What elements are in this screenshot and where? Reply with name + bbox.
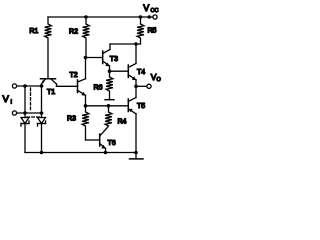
wire T5 emitter down [135,114,137,153]
node input top D1 [24,85,26,87]
R6 open bar [105,99,114,101]
svg-text:O: O [157,77,162,83]
node D2 bottom wire [40,112,42,114]
svg-text:T1: T1 [47,89,55,96]
node input top T1 emitter [40,85,42,87]
svg-text:V: V [143,3,149,13]
svg-text:I: I [11,100,13,106]
label Vo [151,72,162,83]
svg-text:R5: R5 [148,28,157,35]
transistor T5 [128,98,145,114]
svg-text:R3: R3 [67,116,76,123]
svg-text:CC: CC [151,8,159,14]
ground [130,153,144,159]
transistor T1 [41,79,57,96]
transistor T6 [100,129,116,149]
wire D1 column [24,86,26,118]
wire R3 to T6 base [86,139,100,141]
resistor R3 [67,106,89,140]
input terminal top [12,84,16,88]
label Vi [3,94,13,106]
transistor T4 [128,64,145,81]
svg-text:R4: R4 [118,119,127,126]
transistor T3 [103,50,118,67]
wire input bottom [17,112,42,114]
wire top supply rail [48,16,153,18]
wire T6 emitter down [105,148,107,152]
node R2 rail junction [85,16,87,18]
node T6 rail [104,151,106,153]
svg-text:R2: R2 [69,29,78,36]
wire T5 collector up to output [135,86,137,97]
wire T3 collector up [109,44,111,50]
svg-text:T6: T6 [108,140,116,147]
wire to T4 base [110,70,129,72]
dashed coupling line vertical [30,88,32,110]
wire T4 emitter down [135,80,137,87]
node output [135,85,137,87]
wire T2 collector up to R2 node [85,58,87,79]
transistor T2 [57,72,86,96]
resistor R5 [137,17,156,44]
svg-text:R6: R6 [94,85,103,92]
wire T4 collector up [135,44,137,64]
node T4 collector takeoff [135,43,137,45]
node T3 base takeoff [84,56,86,58]
wire to T3 base [86,57,103,59]
wire T1 emitter to input [41,84,43,86]
Vcc terminal [143,3,158,19]
wire to output terminal [136,85,147,87]
resistor R2 [69,17,89,58]
node R4 takeoff [107,105,109,107]
node T2 emitter R3 [84,105,86,107]
output terminal [147,84,151,88]
svg-text:T4: T4 [137,69,145,76]
resistor R1 [29,17,51,78]
wire T2 emitter down [85,95,87,106]
dashed coupling line horizontal [27,116,40,118]
node T3 emitter junction [108,70,110,72]
wire bottom rail [25,152,136,154]
svg-text:V: V [3,94,10,105]
wire collector rail to R5 [110,43,141,45]
wire input top [17,85,42,87]
wire T1 emitter down to D2 [41,86,43,118]
node D1 bottom wire [24,112,26,114]
svg-text:R1: R1 [29,28,38,35]
svg-text:T2: T2 [70,72,78,79]
diode D1 [21,118,29,153]
resistor R6 [94,71,113,99]
svg-text:T5: T5 [137,103,145,110]
resistor R4 [105,106,126,129]
input terminal bottom [12,111,16,115]
svg-text:T3: T3 [110,56,118,63]
node D2 rail [40,151,42,153]
diode D2 [38,118,46,153]
node ground rail [135,151,137,153]
wire T3 emitter down [109,66,111,71]
wire bias node horizontal [86,105,129,107]
node R5 rail junction [139,16,141,18]
